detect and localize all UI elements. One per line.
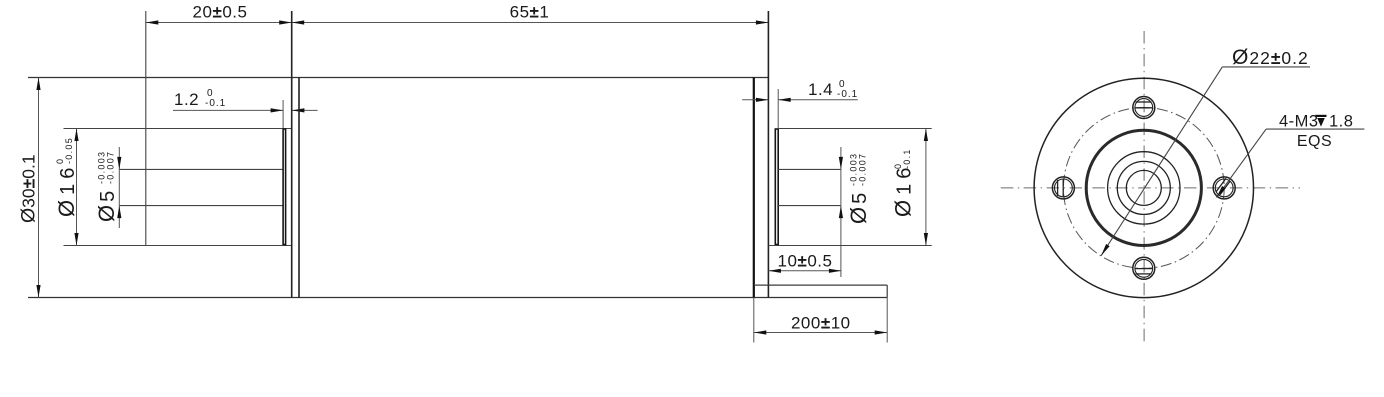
dimension Ø30±0.1 text bbox=[18, 154, 40, 223]
front shaft Ø5 lines bbox=[119, 169, 283, 205]
Ø16 boss ring bbox=[1086, 130, 1201, 245]
dimension Ø30±0.1 line bbox=[36, 78, 40, 298]
screw top bbox=[1133, 97, 1155, 119]
front end plate bbox=[292, 11, 299, 298]
screw bottom bbox=[1133, 257, 1155, 279]
svg-text:1.2: 1.2 bbox=[174, 90, 199, 109]
dimension 65±1 text bbox=[510, 3, 550, 22]
rear washer bbox=[775, 89, 778, 245]
screw right bbox=[1213, 177, 1235, 199]
dimension 1.2 0/-0.1 text bbox=[174, 88, 226, 109]
dimension 10±0.5 line bbox=[768, 269, 841, 273]
dimension 20±0.5 text bbox=[193, 3, 248, 22]
svg-text:65±1: 65±1 bbox=[510, 3, 550, 22]
motor body bottom outline bbox=[28, 297, 887, 299]
dimension Ø5 -0.003/-0.007 rear text bbox=[846, 153, 871, 224]
dimension Ø5 -0.003/-0.007 front line bbox=[117, 147, 121, 228]
screw left bbox=[1052, 177, 1074, 199]
front washer bbox=[283, 129, 286, 245]
horizontal centerline bbox=[1001, 187, 1300, 189]
svg-text:4-M3: 4-M3 bbox=[1279, 113, 1319, 131]
dimension 20±0.5 and 65±1 shared line bbox=[146, 20, 769, 24]
dimension Ø5 -0.003/-0.007 front text bbox=[94, 151, 119, 222]
svg-text:10±0.5: 10±0.5 bbox=[778, 252, 833, 271]
svg-text:200±10: 200±10 bbox=[791, 314, 851, 333]
body right face bbox=[753, 78, 755, 343]
dimension 1.4 0/-0.1 text bbox=[808, 79, 858, 100]
outer flange circle Ø30 bbox=[1034, 78, 1253, 297]
leader 4-M3 depth 1.8 bbox=[1217, 129, 1365, 197]
dimension 10±0.5 text bbox=[778, 252, 833, 271]
dimension Ø16 0/-0.1 rear text bbox=[891, 148, 916, 217]
dimension 200±10 line bbox=[754, 298, 887, 343]
dimension Ø16 0/-0.05 text bbox=[54, 137, 79, 217]
dimension Ø16 0/-0.05 line bbox=[74, 129, 78, 246]
svg-text:-0.05: -0.05 bbox=[64, 137, 74, 164]
terminal tab bbox=[754, 285, 887, 297]
svg-text:-0.1: -0.1 bbox=[902, 148, 912, 169]
dimension Ø16 0/-0.1 rear line bbox=[924, 129, 928, 246]
svg-text:Ø16: Ø16 bbox=[891, 163, 916, 217]
motor body top outline bbox=[28, 77, 768, 79]
svg-text:-0.007: -0.007 bbox=[106, 151, 116, 184]
rear cover face bbox=[767, 11, 769, 298]
svg-text:Ø5: Ø5 bbox=[846, 190, 871, 224]
svg-text:Ø22±0.2: Ø22±0.2 bbox=[1232, 46, 1309, 69]
dimension 200±10 text bbox=[791, 314, 851, 333]
svg-text:Ø30±0.1: Ø30±0.1 bbox=[18, 154, 40, 223]
leader Ø22±0.2 bbox=[1101, 67, 1310, 256]
rear Ø16 extension lines bbox=[768, 129, 931, 246]
Ø10 circle bbox=[1108, 152, 1180, 224]
svg-text:1.4: 1.4 bbox=[808, 80, 833, 99]
svg-text:EQS: EQS bbox=[1297, 133, 1332, 150]
dimension 1.4 0/-0.1 lines bbox=[742, 98, 858, 102]
Ø7 circle bbox=[1117, 161, 1170, 214]
rear shaft Ø5 lines bbox=[778, 147, 841, 277]
bolt circle Ø22 (dash-dot) bbox=[1063, 107, 1224, 268]
front bearing tube Ø16 outline bbox=[64, 11, 292, 246]
vertical centerline bbox=[1143, 31, 1145, 345]
svg-text:1.8: 1.8 bbox=[1329, 113, 1353, 131]
shaft circle Ø5 bbox=[1126, 170, 1161, 205]
svg-text:-0.1: -0.1 bbox=[837, 89, 858, 100]
svg-text:20±0.5: 20±0.5 bbox=[193, 3, 248, 22]
svg-text:Ø16: Ø16 bbox=[54, 163, 79, 217]
leader 4-M3 depth 1.8 text bbox=[1279, 113, 1353, 151]
svg-text:-0.1: -0.1 bbox=[205, 98, 226, 109]
dimension 1.2 0/-0.1 lines bbox=[173, 100, 318, 129]
dimension Ø5 -0.003/-0.007 rear arrows bbox=[839, 157, 843, 218]
svg-text:Ø5: Ø5 bbox=[94, 188, 119, 222]
leader Ø22±0.2 text bbox=[1232, 46, 1309, 69]
svg-text:-0.007: -0.007 bbox=[858, 153, 868, 186]
